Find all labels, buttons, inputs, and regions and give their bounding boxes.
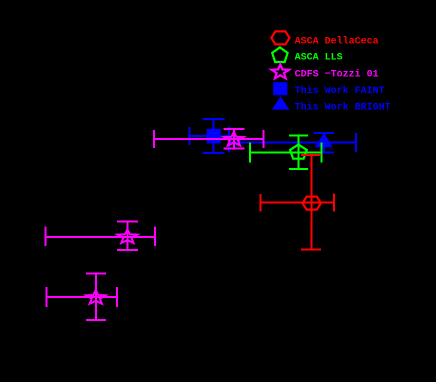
svg-text:This Work BRIGHT: This Work BRIGHT bbox=[295, 102, 391, 114]
svg-text:ASCA LLS: ASCA LLS bbox=[295, 53, 343, 64]
svg-text:This Work FAINT: This Work FAINT bbox=[295, 85, 385, 97]
svg-text:ASCA DellaCeca: ASCA DellaCeca bbox=[295, 36, 379, 48]
svg-text:CDFS −Tozzi 01: CDFS −Tozzi 01 bbox=[295, 69, 379, 81]
